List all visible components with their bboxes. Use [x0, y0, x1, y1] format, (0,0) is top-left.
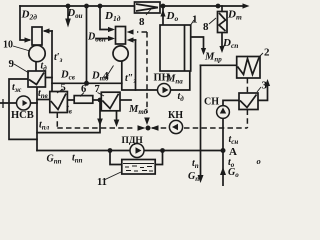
svg-text:8: 8 [203, 21, 209, 33]
svg-text:3: 3 [262, 80, 268, 92]
svg-text:СН: СН [204, 97, 219, 108]
svg-text:НСВ: НСВ [11, 110, 34, 121]
svg-text:КН: КН [168, 110, 183, 121]
svg-text:9: 9 [9, 58, 15, 70]
svg-text:о: о [257, 156, 261, 166]
svg-text:7: 7 [95, 84, 100, 95]
svg-text:2: 2 [264, 47, 270, 59]
svg-text:8: 8 [139, 16, 145, 28]
svg-text:6: 6 [81, 84, 86, 95]
svg-text:5: 5 [61, 83, 66, 94]
svg-text:10: 10 [3, 40, 13, 51]
svg-text:4: 4 [103, 70, 109, 82]
svg-text:11: 11 [97, 177, 107, 186]
svg-text:1: 1 [192, 14, 198, 26]
svg-text:ПДН: ПДН [122, 136, 144, 146]
